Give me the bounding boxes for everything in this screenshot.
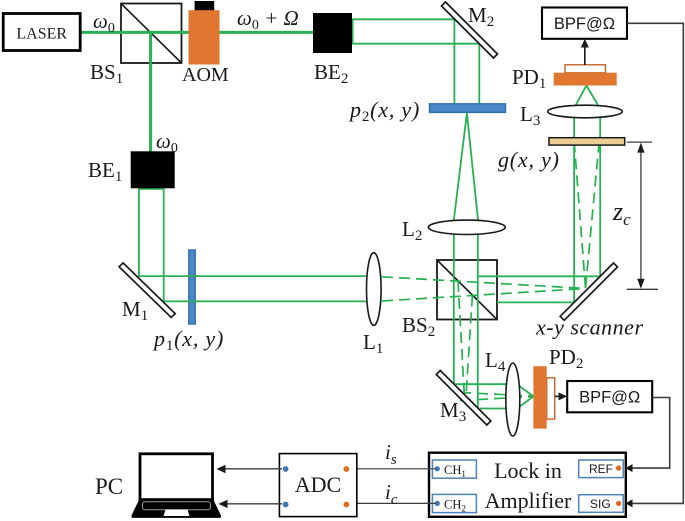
wire lock-in CH1 to ADC [349, 468, 436, 470]
wire L2 down through BS2 to M3 left beam [453, 228, 455, 385]
photodiode PD1 [512, 65, 617, 92]
wire L4 to PD2 converging beam [517, 384, 534, 408]
beam expander BE2 [313, 13, 352, 87]
wire laser to AOM beam [81, 31, 189, 34]
mirror M1 [119, 263, 175, 324]
mirror x-y scanner [535, 263, 644, 340]
svg-text:x-y scanner: x-y scanner [535, 315, 644, 340]
wire arrow PD1 to BPF1 [581, 39, 589, 65]
photodiode PD2 [533, 345, 583, 429]
wire arrow PD2 to BPF2 [555, 392, 567, 400]
wire arrow ADC to PC upper [217, 465, 283, 473]
svg-text:LASER: LASER [16, 26, 67, 43]
lens L4 [485, 348, 520, 436]
dimension zc arrow [612, 142, 658, 289]
wire L2 down through BS2 to M3 right beam [477, 228, 479, 409]
wire dashed BS2 down to M3 left [458, 281, 464, 395]
svg-text:REF: REF [589, 462, 613, 476]
wire BS2 to scanner lower beam [497, 301, 575, 303]
wire M3 to L4 lower beam [478, 408, 508, 410]
converter ADC box [279, 454, 356, 517]
phase plate p1 [189, 250, 195, 324]
lens L2 [402, 217, 505, 244]
svg-text:Amplifier: Amplifier [485, 488, 572, 513]
laser box [3, 14, 80, 51]
svg-text:g(x, y): g(x, y) [498, 147, 560, 172]
wire scanner up to L3 right beam [599, 108, 601, 276]
wire BS2 to scanner upper beam [479, 275, 601, 277]
filter BPF2 box [567, 381, 652, 412]
wire dashed scanner up to g left [575, 146, 586, 288]
wire BE2 output connector [352, 19, 354, 43]
wire AOM to BE2 beam [219, 31, 315, 34]
phase plate p2 [348, 97, 506, 125]
wire dashed M3 to PD2 lower [460, 397, 532, 401]
wire dashed L1 to scanner upper [382, 277, 586, 289]
mirror M3 [436, 371, 491, 426]
svg-text:p1(x, y): p1(x, y) [152, 326, 224, 354]
wire BS1 down to BE1 beam [149, 32, 152, 152]
svg-text:ω0 + Ω: ω0 + Ω [237, 6, 299, 33]
wire dashed M3 to PD2 upper [460, 393, 532, 397]
port REF [579, 460, 633, 478]
computer PC laptop [95, 454, 221, 518]
AOM modulator [182, 1, 229, 86]
svg-text:ADC: ADC [295, 472, 341, 497]
wire BE1 to M1 right beam [163, 187, 165, 302]
svg-text:BPF@Ω: BPF@Ω [554, 15, 615, 33]
mirror M2 [442, 2, 498, 58]
svg-text:AOM: AOM [182, 64, 229, 86]
beam splitter BS2 cube [437, 260, 497, 320]
svg-text:PC: PC [95, 474, 123, 499]
wire dashed scanner up to g right [586, 146, 599, 288]
wire M1 to L1 lower beam [164, 300, 368, 302]
beam expander BE1 [88, 151, 175, 188]
wire BE1 output connector [139, 188, 164, 190]
port SIG [579, 495, 633, 513]
wire L3 to PD1 converging beam [575, 86, 599, 108]
filter BPF1 box [542, 8, 627, 39]
lock-in amplifier box [429, 453, 626, 517]
svg-text:p2(x, y): p2(x, y) [348, 97, 420, 125]
port CH2 [432, 494, 476, 513]
wire BE1 to M1 left beam [138, 187, 140, 277]
port CH1 [432, 460, 476, 479]
wire arrow ADC to PC lower [219, 500, 283, 508]
wire BPF1 to SIG [627, 23, 683, 503]
svg-text:Lock in: Lock in [494, 458, 562, 483]
wire p2 to L2 converging beam [454, 113, 479, 222]
svg-text:SIG: SIG [590, 497, 611, 511]
wire BE2 to M2 upper beam [352, 19, 454, 105]
lens L3 [520, 102, 622, 129]
wire lock-in CH2 to ADC [349, 502, 436, 504]
wire M1 to L1 upper beam [139, 275, 368, 277]
beam splitter BS1 cube [121, 4, 182, 64]
lens L1 [363, 253, 383, 357]
wire dashed BS2 down to M3 right [466, 295, 472, 396]
wire scanner up to L3 left beam [573, 108, 575, 302]
wire BE2 to M2 lower beam [352, 44, 479, 105]
wire dashed L1 to scanner lower [382, 289, 586, 302]
wire BPF2 to REF [631, 398, 670, 469]
svg-text:BPF@Ω: BPF@Ω [579, 389, 640, 407]
sample plate g(x,y) [498, 138, 625, 172]
wire M3 to L4 upper beam [454, 383, 508, 385]
